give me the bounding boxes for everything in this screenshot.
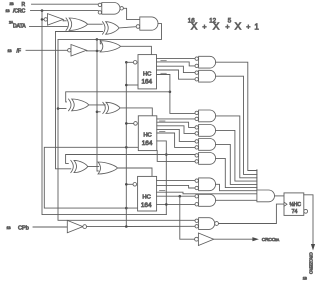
wire jog into or gate U2a upper input — [99, 39, 102, 43]
wire U2b output to U3 serial input DSA — [118, 168, 153, 176]
node junction xor3 lower input tap — [57, 107, 60, 110]
or gate U2b — [98, 162, 118, 174]
wire U5a output to and gate U6a — [123, 8, 139, 19]
zero-detect gate G6 — [195, 154, 198, 157]
node junction tap x5 feedback — [169, 91, 172, 94]
clock bubble U2 — [126, 122, 133, 124]
wire U3 Q pin4 to gate G8 upper input and CRCO tap — [157, 195, 195, 197]
svg-text:1B: 1B — [7, 226, 12, 230]
node junction clock rail / U3 left pin — [125, 207, 128, 210]
node junction x12 feedback — [165, 153, 168, 156]
arrow CRCO output — [252, 237, 259, 241]
wire G7 output cascade — [216, 184, 257, 190]
xor gate U3b — [106, 102, 120, 113]
wire x12 feedback line to xor5 upper input and gate G6 upper input — [66, 155, 195, 164]
wire CPb input line — [33, 226, 67, 228]
wire U7 output to flip-flop D input — [275, 195, 285, 197]
svg-text:5: 5 — [228, 17, 232, 24]
wire U1 Q pin1 to gate G1 upper input — [157, 58, 196, 60]
node junction clock rail / U2 left pin — [125, 146, 128, 149]
wire U3a output to xor U3b — [89, 104, 106, 106]
and gate U6a — [136, 25, 140, 29]
svg-text:R: R — [22, 2, 26, 8]
wire U3 Q pin1 to gate G7 upper input — [157, 180, 195, 182]
big AND gate U7 16-input zero detector — [256, 170, 258, 190]
wire /F input line — [26, 49, 68, 51]
pin dash U2 lower — [160, 131, 166, 133]
wire inverter U4a output to XOR gate — [63, 20, 66, 22]
svg-text:CPb: CPb — [18, 225, 29, 231]
wire U1 Q pin3 to gate G2 upper input — [157, 66, 196, 72]
node junction CRCO tap — [179, 195, 182, 198]
clock bubble U1 — [126, 61, 133, 63]
wire U3b output to U2 serial input DSA — [120, 108, 152, 116]
svg-text:/F: /F — [17, 48, 21, 54]
zero-detect gate G5 — [195, 140, 198, 143]
node junction /F net with vertical x97 — [96, 50, 99, 53]
xor gate U3c tap — [74, 160, 88, 172]
svg-text:+: + — [246, 22, 250, 31]
svg-text:1B: 1B — [8, 49, 13, 53]
wire G8 output to big AND — [216, 199, 257, 201]
wire U3 Q pin3 direct to big AND — [157, 192, 257, 194]
wire U3 Q pin5 to gate G8 lower input — [157, 203, 195, 205]
wire U2 bottom stub to gate G6 lower input — [157, 151, 195, 162]
wire clock line to xnor U8 lower input — [87, 225, 195, 227]
zero-detect gate G8 — [195, 195, 198, 198]
svg-text:X: X — [235, 21, 242, 32]
pin dash U2 upper — [160, 120, 166, 122]
zero-detect gate G7 — [195, 179, 198, 182]
wire G1 output cascade — [216, 62, 257, 170]
shift register U2 HC164 — [138, 116, 157, 151]
node junction G8 lower / bottom return — [165, 203, 168, 206]
node net-F vertical rail x55.5 — [56, 32, 71, 169]
svg-text:DATA: DATA — [13, 23, 26, 29]
pin dash U3 — [160, 190, 166, 192]
node /CRC junction — [41, 9, 44, 12]
wire U3 Q pin2 to gate G7 lower input — [157, 185, 195, 188]
svg-text:HC: HC — [143, 72, 151, 78]
wire G3 output cascade — [216, 116, 257, 178]
svg-text:CRCO: CRCO — [262, 237, 276, 243]
svg-text:HC: HC — [142, 194, 150, 200]
wire U9 Q output to CRCZERO arrow — [304, 195, 313, 245]
svg-text:CRCZERO: CRCZERO — [308, 252, 313, 274]
svg-text:/CRC: /CRC — [13, 9, 26, 15]
wire vertical rail x97 — [97, 39, 98, 171]
svg-text:HC: HC — [143, 132, 151, 138]
wire U3c output to or gate U2b — [88, 166, 99, 168]
svg-text:½HC: ½HC — [290, 201, 302, 208]
wire G4 output cascade — [216, 130, 257, 181]
wire G6 output cascade — [216, 158, 257, 187]
wire R input line — [32, 3, 99, 5]
inverter U4b on /F — [68, 49, 71, 52]
wire clock rail vertical — [125, 62, 127, 226]
wire G5 output cascade — [216, 144, 257, 184]
node junction rail / U1 left pin — [125, 84, 128, 87]
wire U2a output to HC164 U1 serial input DSA — [121, 46, 152, 54]
svg-text:X: X — [213, 21, 220, 32]
zero-detect gate G3 — [195, 111, 198, 114]
clock buffer U4c — [67, 220, 83, 232]
node junction U6a return with vertical x97 — [96, 38, 99, 41]
wire interconnect chip2/chip3 left pins — [44, 147, 138, 208]
xnor gate U8 (inputs and output inverted) — [195, 219, 198, 222]
node clock rail junction U1 — [125, 61, 128, 64]
svg-text:2A: 2A — [275, 238, 280, 242]
xor gate U1a (data xor /crc) — [69, 18, 87, 30]
node clock rail junction U3 — [125, 183, 128, 186]
pin dash U1 lower — [161, 72, 167, 74]
zero-detect gate G2 — [195, 71, 198, 74]
wire x5 feedback line to xor3 upper input — [66, 92, 170, 102]
clock bubble U3 — [126, 183, 133, 185]
wire G2 output cascade — [216, 76, 257, 174]
wire U2 Q pin3 to gate G4 lower input — [157, 126, 195, 134]
wire U6a output return line — [58, 24, 195, 221]
svg-text:1: 1 — [254, 22, 259, 31]
svg-text:164: 164 — [142, 140, 153, 147]
wire U1 left pin MR — [126, 84, 138, 86]
xor gate U3a tap — [72, 99, 89, 111]
wire /CRC input line — [31, 10, 99, 12]
node clock rail junction U2 — [125, 122, 128, 125]
wire XOR U1b output to and gate U6a lower input — [119, 27, 136, 28]
wire stub to xor3 lower input — [58, 108, 66, 110]
or gate U2a — [100, 41, 120, 52]
inverted output bubble U9 — [304, 209, 308, 213]
output inverter U4d CRCO — [195, 237, 199, 241]
wire CRCO tap vertical to output inverter — [180, 196, 195, 239]
arrow CRCZERO output — [311, 244, 315, 251]
svg-text:74: 74 — [292, 209, 298, 215]
wire U2 Q pin2 to gate G4 upper input — [157, 122, 195, 127]
node clock rail bottom junction — [125, 225, 128, 228]
zero-detect gate G1 — [195, 57, 198, 60]
wire U1 Q pin2 to gate G1 lower input — [157, 62, 196, 66]
svg-text:164: 164 — [141, 202, 152, 209]
nand gate U5a with inverted inputs (R, /CRC) — [98, 3, 101, 6]
wire U2 Q pin6 tap rail x166.3 — [157, 141, 167, 215]
svg-text:1B: 1B — [303, 277, 308, 281]
wire U2 Q pin4 to gate G5 upper input — [157, 129, 195, 141]
zero-detect gate G4 — [195, 126, 198, 129]
wire U2 Q pin5 to gate G5 lower input — [157, 133, 195, 147]
svg-text:164: 164 — [141, 79, 152, 86]
svg-text:1B: 1B — [6, 9, 11, 13]
xor gate U1b — [106, 22, 119, 35]
svg-text:2B: 2B — [10, 2, 15, 6]
wire U2 Q pin1 to gate G3 lower input — [157, 118, 195, 120]
wire DATA input line — [30, 25, 68, 27]
wire CRCO output line — [214, 238, 253, 240]
svg-text:+: + — [202, 22, 206, 31]
wire /CRC vertical rail to bottom — [42, 11, 166, 215]
inverter U4a on /CRC — [42, 18, 44, 20]
wire U1 Q pin5 tap rail x169.9 — [157, 75, 196, 114]
svg-text:X: X — [191, 21, 198, 32]
wire /F inverter output to or gate U2a lower input — [87, 50, 102, 52]
node junction xor4 lower input — [96, 111, 99, 114]
wire stub to xor4 lower input — [97, 111, 100, 113]
shift register U1 HC164 — [138, 55, 157, 89]
wire U1 Q pin4 to gate G2 lower input — [157, 70, 196, 79]
wire XOR U1a output — [88, 23, 103, 25]
wire U8 output to flip-flop clock input — [219, 204, 285, 223]
shift register U3 HC164 — [138, 176, 157, 211]
pin dash U1 upper — [161, 60, 167, 62]
flip-flop U9 half HC74 — [284, 193, 304, 216]
wire feedback into XOR U1b lower input — [56, 31, 103, 33]
